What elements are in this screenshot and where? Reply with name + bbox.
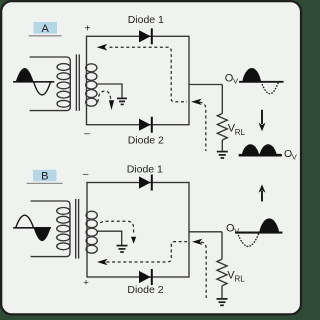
down arrow — [259, 110, 266, 131]
secondary winding T1-A — [86, 64, 97, 106]
dashed electron flow path B lower — [97, 242, 187, 266]
resistor RL-A — [217, 85, 227, 151]
junction wire to load A — [189, 84, 222, 86]
dashed flow path A right — [200, 102, 206, 151]
junction wire to load B — [189, 231, 222, 233]
svg-text:V: V — [234, 227, 239, 236]
VRL label A — [228, 123, 246, 137]
dashed flow path B right — [201, 242, 206, 298]
primary winding T1-B — [31, 201, 70, 257]
svg-text:RL: RL — [235, 275, 246, 284]
dashed electron flow path A upper — [97, 44, 187, 102]
ground RL-B — [217, 299, 228, 305]
dashed flow arrow at junction A — [191, 99, 201, 105]
svg-text:RL: RL — [235, 128, 246, 137]
diode D1-B — [139, 175, 152, 191]
label B box — [27, 170, 63, 184]
center tap wire B — [97, 231, 122, 245]
output waveform B — [226, 218, 282, 246]
svg-text:Diode 2: Diode 2 — [128, 135, 164, 147]
svg-text:+: + — [85, 24, 91, 35]
ground RL-A — [217, 152, 228, 158]
output waveform A top — [225, 68, 284, 94]
primary winding T1-A — [30, 57, 71, 111]
secondary winding T1-B — [86, 211, 97, 253]
svg-text:+: + — [83, 278, 89, 289]
dashed current arc B — [100, 221, 136, 243]
VRL label B — [227, 269, 245, 283]
circuit A loop wires — [87, 36, 190, 124]
full-wave output waveform A — [239, 144, 297, 161]
svg-text:–: – — [83, 169, 89, 180]
AC source waveform A — [13, 68, 54, 95]
circuit B loop wires — [87, 183, 189, 278]
label A box — [29, 22, 62, 36]
svg-text:–: – — [84, 129, 90, 140]
svg-text:Diode 1: Diode 1 — [128, 14, 164, 26]
transformer core B — [76, 199, 79, 259]
AC source waveform B — [13, 215, 51, 241]
diode D1-A — [139, 28, 152, 44]
dashed current arc A — [98, 91, 114, 110]
svg-text:A: A — [42, 23, 50, 35]
center tap ground B — [117, 246, 128, 252]
svg-text:V: V — [292, 153, 297, 162]
svg-text:V: V — [233, 77, 238, 86]
diode D2-B — [139, 269, 152, 285]
svg-text:B: B — [41, 171, 48, 183]
resistor RL-B — [217, 232, 227, 298]
svg-text:Diode 2: Diode 2 — [127, 284, 163, 296]
diode D2-A — [139, 117, 152, 133]
center tap ground A — [117, 98, 127, 104]
dashed flow arrow at junction B — [192, 239, 202, 245]
up arrow — [259, 184, 266, 201]
center tap wire A — [96, 84, 122, 98]
svg-text:Diode 1: Diode 1 — [127, 163, 163, 175]
transformer core A — [76, 54, 79, 110]
